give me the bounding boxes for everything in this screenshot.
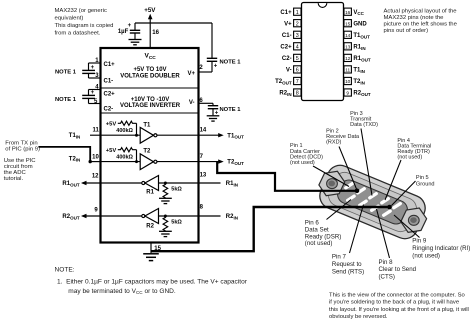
svg-text:Pin 5: Pin 5 [416, 175, 429, 181]
svg-text:(not used): (not used) [290, 160, 315, 166]
svg-text:8: 8 [296, 91, 299, 97]
DB9 connector body [316, 161, 429, 242]
capacitor C5 1uF [118, 23, 140, 39]
svg-text:C2+: C2+ [104, 92, 116, 98]
svg-text:13: 13 [345, 44, 351, 49]
svg-text:4: 4 [296, 44, 299, 50]
svg-text:+: + [214, 64, 218, 70]
svg-text:2: 2 [296, 21, 299, 27]
svg-text:if you're soldering to the bac: if you're soldering to the back of a plu… [329, 300, 459, 306]
svg-text:T1IN: T1IN [353, 68, 365, 74]
svg-text:may be terminated to VCC or to: may be terminated to VCC or to GND. [68, 288, 176, 295]
svg-text:NOTE:: NOTE: [55, 267, 75, 274]
svg-text:picture on the left shows the: picture on the left shows the [384, 22, 458, 28]
svg-text:2: 2 [199, 65, 203, 71]
capacitor C3 (V+) NOTE 1 [199, 23, 242, 72]
svg-text:5: 5 [296, 56, 299, 62]
caption: MAX232 datasheet note [55, 8, 114, 37]
svg-text:10: 10 [92, 154, 99, 160]
DIP left pin boxes 1-8 [294, 8, 301, 97]
pin 12 R1OUT arrow [62, 174, 100, 188]
svg-text:C1+: C1+ [280, 10, 292, 16]
caption: connector view note [329, 292, 469, 320]
svg-text:13: 13 [200, 173, 207, 179]
svg-text:T1OUT: T1OUT [227, 133, 244, 139]
svg-text:11: 11 [92, 128, 99, 134]
svg-text:(RXD): (RXD) [326, 140, 341, 146]
svg-text:(not used): (not used) [412, 252, 440, 259]
svg-text:C1-: C1- [104, 79, 114, 85]
svg-text:V+: V+ [284, 21, 292, 27]
label pin 3 TXD [350, 111, 378, 128]
svg-text:R2OUT: R2OUT [62, 214, 79, 220]
svg-text:NOTE 1: NOTE 1 [55, 70, 77, 76]
svg-text:R2IN: R2IN [226, 214, 238, 220]
svg-text:7: 7 [296, 79, 299, 85]
DB9 jack screw nut left [319, 171, 345, 195]
svg-text:1. Either 0.1µF or 1µF capaci: 1. Either 0.1µF or 1µF capacitors may be… [57, 278, 248, 285]
svg-text:NOTE 1: NOTE 1 [55, 97, 77, 103]
caption: actual physical layout [384, 8, 458, 34]
label pin 7 RTS [332, 254, 364, 276]
svg-text:8: 8 [200, 204, 204, 210]
svg-text:400kΩ: 400kΩ [116, 154, 133, 160]
svg-text:3: 3 [296, 33, 299, 39]
svg-text:T1IN: T1IN [69, 133, 81, 139]
svg-text:400kΩ: 400kΩ [116, 128, 133, 134]
svg-text:R2: R2 [146, 224, 154, 230]
svg-text:1: 1 [296, 10, 299, 16]
svg-text:16: 16 [152, 30, 159, 36]
svg-text:(not used): (not used) [397, 155, 422, 161]
svg-text:V+: V+ [187, 71, 195, 77]
IC internal labels [104, 53, 196, 113]
svg-text:+5V TO 10V: +5V TO 10V [133, 67, 166, 73]
svg-text:+5V: +5V [106, 122, 117, 128]
svg-text:16: 16 [345, 10, 351, 15]
buffer T1 [101, 122, 199, 143]
svg-text:Pin 7: Pin 7 [332, 254, 347, 261]
svg-text:R1IN: R1IN [353, 45, 365, 51]
DIP package U1 outline [302, 3, 344, 101]
label pin 8 CTS [379, 259, 417, 281]
svg-text:15: 15 [345, 21, 351, 26]
svg-text:Clear to Send: Clear to Send [379, 266, 417, 273]
pointer line pin8 [377, 209, 390, 258]
ground (R2 5k) [159, 231, 172, 236]
svg-text:12: 12 [345, 56, 351, 61]
svg-text:(not used): (not used) [305, 240, 333, 247]
ground (pin 15) [143, 254, 159, 261]
svg-text:T1OUT: T1OUT [353, 33, 370, 39]
svg-text:12: 12 [92, 174, 99, 180]
label pin 2 RXD [326, 128, 360, 145]
svg-text:Pin 8: Pin 8 [379, 259, 394, 266]
svg-text:C1+: C1+ [104, 62, 116, 68]
svg-text:R1OUT: R1OUT [62, 181, 79, 187]
svg-text:tutorial.: tutorial. [4, 176, 24, 182]
svg-text:R2IN: R2IN [279, 91, 291, 97]
svg-text:+5V: +5V [106, 148, 117, 154]
DB9 pins 1-5 top row [346, 182, 401, 209]
svg-text:obviously be reversed.: obviously be reversed. [329, 314, 388, 320]
svg-text:R1OUT: R1OUT [353, 56, 370, 62]
DIP right pin boxes 16-9 [344, 8, 351, 96]
svg-text:C1-: C1- [282, 33, 292, 39]
svg-text:+5V: +5V [144, 7, 156, 14]
ground (1uF cap) [129, 40, 142, 45]
svg-text:5kΩ: 5kΩ [171, 186, 182, 192]
wire T2OUT to DB9 pin 2 [217, 162, 356, 191]
svg-text:R1: R1 [146, 190, 154, 196]
svg-text:V-: V- [286, 68, 292, 74]
label pin 1 DCD [290, 143, 323, 166]
caption: From TX pin of PIC [4, 140, 40, 182]
receiver R1 [101, 176, 199, 196]
svg-text:NOTE 1: NOTE 1 [220, 107, 242, 113]
svg-text:Request to: Request to [332, 261, 362, 268]
DB9 pins 6-9 bottom row [348, 194, 391, 217]
resistor 400k (T1) with +5V [106, 121, 138, 136]
svg-text:This diagram is copied: This diagram is copied [55, 23, 114, 29]
svg-text:(CTS): (CTS) [379, 274, 395, 281]
+5V supply arrow [144, 7, 159, 49]
node: wire tip at DB9 pin 2 [355, 189, 360, 194]
capacitor C1 NOTE 1 [55, 58, 101, 79]
svg-text:Actual physical layout of the: Actual physical layout of the [384, 8, 458, 14]
svg-text:Send (RTS): Send (RTS) [332, 268, 364, 275]
pin 15 stub [151, 243, 162, 254]
ground (R1 5k) [159, 198, 172, 203]
pointer line pin3 [361, 129, 372, 196]
svg-text:14: 14 [345, 33, 351, 38]
wire GND to DB9 pin 5 [151, 207, 389, 251]
svg-text:from a datasheet.: from a datasheet. [55, 31, 101, 37]
svg-text:9: 9 [346, 91, 349, 96]
svg-text:T2OUT: T2OUT [275, 79, 292, 85]
label pin 5 ground [416, 175, 435, 188]
pointer line pin5 [392, 181, 416, 206]
ground (V- cap) [207, 116, 220, 121]
wire from PIC TX to T2IN [39, 147, 101, 163]
svg-text:R1IN: R1IN [226, 181, 238, 187]
svg-text:7: 7 [200, 154, 204, 160]
svg-text:6: 6 [296, 68, 299, 74]
pointer line pin1 [313, 166, 349, 187]
resistor 400k (T2) with +5V [106, 148, 138, 164]
svg-text:T1: T1 [143, 122, 151, 128]
capacitor C4 (V-) NOTE 1 [199, 98, 242, 117]
svg-text:R2OUT: R2OUT [353, 91, 370, 97]
svg-text:VOLTAGE INVERTER: VOLTAGE INVERTER [120, 103, 181, 109]
receiver R2 [101, 209, 199, 230]
pointer line pin4 [385, 160, 401, 200]
label pin 4 DTR [397, 138, 431, 161]
svg-text:14: 14 [200, 128, 207, 134]
pointer line pin6 [327, 200, 352, 220]
svg-text:Ground: Ground [416, 181, 435, 187]
svg-text:Ringing Indicator (RI): Ringing Indicator (RI) [412, 245, 470, 252]
svg-text:Data (TXD): Data (TXD) [350, 122, 378, 128]
buffer T2 [101, 149, 199, 170]
svg-text:+: + [91, 90, 95, 96]
svg-text:this layout. If you're looking: this layout. If you're looking at the fr… [329, 307, 469, 313]
label pin 6 DSR [305, 220, 342, 248]
svg-text:C2-: C2- [104, 107, 114, 113]
note text bottom [55, 267, 248, 295]
svg-text:MAX232 pins (note the: MAX232 pins (note the [384, 15, 445, 21]
svg-text:pins out of order): pins out of order) [384, 28, 429, 34]
svg-text:VCC: VCC [353, 10, 364, 16]
svg-text:T2IN: T2IN [353, 79, 365, 85]
IC U1 MAX232 body [101, 48, 199, 243]
svg-text:T2: T2 [143, 149, 151, 155]
svg-text:V-: V- [189, 100, 195, 106]
pin 9 R2OUT arrow [62, 208, 100, 221]
svg-text:MAX232 (or generic: MAX232 (or generic [55, 8, 107, 14]
svg-text:10: 10 [345, 79, 351, 84]
pointer line pin2 [339, 147, 357, 190]
svg-text:of PIC (pin 9): of PIC (pin 9) [5, 147, 40, 153]
resistor 5k (R1) [163, 182, 182, 199]
svg-text:T2OUT: T2OUT [227, 160, 244, 166]
svg-text:1µF: 1µF [118, 29, 129, 35]
pin 13 R1IN stub [199, 173, 238, 188]
svg-text:+10V TO -10V: +10V TO -10V [131, 97, 169, 103]
svg-text:T2IN: T2IN [69, 156, 81, 162]
svg-text:5kΩ: 5kΩ [171, 219, 182, 225]
label pin 9 RI [412, 238, 470, 260]
pin 8 R2IN stub [199, 204, 238, 220]
pin 11 T1IN stub [69, 128, 101, 140]
DIP left pin labels [275, 10, 292, 97]
svg-text:Pin 9: Pin 9 [412, 238, 427, 245]
resistor 5k (R2) [163, 215, 182, 232]
DB9 jack screw nut right [401, 208, 427, 232]
capacitor C2 NOTE 1 [55, 85, 101, 105]
svg-text:11: 11 [345, 68, 350, 73]
svg-text:This is the view of the connec: This is the view of the connector at the… [329, 292, 465, 298]
svg-text:From TX pin: From TX pin [5, 140, 37, 146]
wire +5V rail [135, 22, 212, 24]
node: wire tip at DB9 pin 5 [387, 205, 392, 210]
svg-text:C2+: C2+ [280, 45, 292, 51]
svg-text:+: + [91, 65, 95, 71]
svg-text:NOTE 1: NOTE 1 [220, 59, 242, 65]
svg-text:C2-: C2- [282, 56, 292, 62]
pin 7 T2OUT arrow [199, 154, 245, 166]
svg-text:GND: GND [353, 21, 367, 27]
pointer line pin9 [394, 215, 420, 238]
pin 14 T1OUT arrow [199, 128, 245, 140]
svg-text:equivalent): equivalent) [55, 16, 84, 22]
svg-text:9: 9 [94, 208, 98, 214]
pointer line pin7 [350, 205, 364, 254]
DIP right pin labels [353, 10, 370, 97]
svg-text:VOLTAGE DOUBLER: VOLTAGE DOUBLER [120, 74, 180, 80]
